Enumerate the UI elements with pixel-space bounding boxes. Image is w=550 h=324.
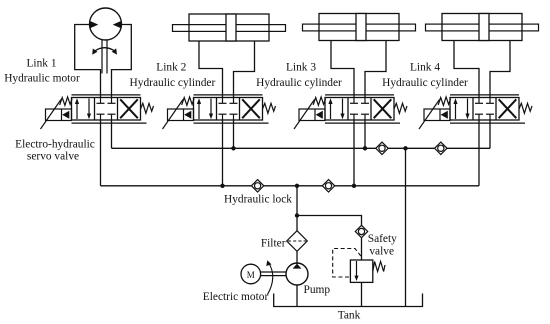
wire: V4 right port down to return bus end xyxy=(489,120,491,148)
servo valve V3 xyxy=(294,95,407,129)
wire: pump suction to tank xyxy=(296,285,298,307)
svg-text:valve: valve xyxy=(369,246,394,258)
wire: tank return line from return bus xyxy=(405,148,407,306)
wire: safety valve outlet to tank xyxy=(361,282,363,306)
wire: V3 left port down to pressure bus xyxy=(353,120,355,186)
servo valve V2 xyxy=(163,95,276,129)
svg-text:Electric motor: Electric motor xyxy=(203,291,269,303)
wire: cylinder C3 right port to valve V3 xyxy=(365,41,386,98)
motor-pump shaft xyxy=(261,272,286,276)
shaft rotation arrow xyxy=(266,260,273,294)
svg-text:Electro-hydraulic: Electro-hydraulic xyxy=(15,139,95,151)
svg-text:Hydraulic cylinder: Hydraulic cylinder xyxy=(130,77,216,89)
wire: cylinder C4 right port to valve V4 xyxy=(490,41,510,98)
wire: check valve to safety valve xyxy=(361,238,363,260)
node: V2-T junction xyxy=(231,146,235,150)
svg-text:Tank: Tank xyxy=(338,310,361,322)
wire: safety valve branch xyxy=(297,216,362,226)
servo valve V1 xyxy=(41,95,154,129)
hydraulic motor M1 (Link 1) xyxy=(90,8,122,40)
servo valve V4 xyxy=(419,95,532,129)
wire: V4 left port down to pressure bus end xyxy=(478,120,480,186)
node: return bus to tank junction xyxy=(403,146,407,150)
wire: cylinder C3 left port to valve V3 xyxy=(331,41,354,98)
check valve CV2 (hydraulic lock, pressure bus) xyxy=(322,180,334,192)
wire: cylinder C2 right port to valve V2 xyxy=(234,41,255,98)
wire: pressure bus (lower) xyxy=(101,185,480,187)
svg-text:Safety: Safety xyxy=(368,233,397,245)
check valve CV3 (hydraulic lock, return bus) xyxy=(376,142,388,154)
svg-text:Link 3: Link 3 xyxy=(286,62,316,74)
svg-text:Link 2: Link 2 xyxy=(156,62,186,74)
node: V3-P junction xyxy=(352,184,356,188)
svg-text:Pump: Pump xyxy=(304,284,331,296)
safety valve pilot line (dashed) xyxy=(333,249,361,278)
svg-text:Hydraulic motor: Hydraulic motor xyxy=(4,73,80,85)
node: pump-pressure bus junction xyxy=(295,184,299,188)
node: safety branch junction xyxy=(295,213,299,217)
wire: filter to pump xyxy=(296,251,298,264)
check valve CV1 (hydraulic lock, pressure bus) xyxy=(251,180,263,192)
wire: pump pressure riser xyxy=(296,186,298,231)
motor shaft xyxy=(102,40,107,74)
electric motor EM1 xyxy=(241,264,261,284)
wire: motor loop right xyxy=(112,25,132,98)
tank xyxy=(274,294,423,307)
wire: cylinder C2 left port to valve V2 xyxy=(199,41,223,98)
svg-text:Link 4: Link 4 xyxy=(410,62,440,74)
check valve CV4 (hydraulic lock, return bus) xyxy=(435,142,447,154)
wire: cylinder C4 left port to valve V4 xyxy=(454,41,479,98)
hydraulic cylinder C3 (Link 3) xyxy=(303,14,416,41)
safety valve spring xyxy=(373,262,385,272)
svg-text:Hydraulic lock: Hydraulic lock xyxy=(224,194,292,206)
wire: V1 right port down to return bus xyxy=(111,120,113,148)
svg-text:M: M xyxy=(247,270,255,280)
label: Electro-hydraulic servo valve xyxy=(15,139,95,163)
svg-text:Hydraulic cylinder: Hydraulic cylinder xyxy=(382,77,468,89)
label: Safety valve xyxy=(368,233,397,258)
hydraulic cylinder C2 (Link 2) xyxy=(173,14,286,41)
wire: V3 right port down to return bus xyxy=(364,120,366,148)
svg-text:servo valve: servo valve xyxy=(27,151,79,163)
wire: V2 right port down to return bus xyxy=(233,120,235,148)
hydraulic cylinder C4 (Link 4) xyxy=(426,14,539,41)
svg-text:Hydraulic cylinder: Hydraulic cylinder xyxy=(256,77,342,89)
svg-text:Link 1: Link 1 xyxy=(26,58,56,70)
check valve CV5 (above safety valve) xyxy=(355,225,367,237)
pump P1 xyxy=(286,263,308,285)
wire: motor loop left xyxy=(75,25,101,98)
wire: V2 left port down to pressure bus xyxy=(222,120,224,186)
svg-text:Filter: Filter xyxy=(261,238,286,250)
safety relief valve RV1 xyxy=(350,260,372,282)
wire: return bus (upper) xyxy=(112,147,491,149)
wire: V1 left port down to pressure bus xyxy=(100,120,102,186)
filter F1 xyxy=(287,231,308,252)
node: V2-P junction xyxy=(220,184,224,188)
node: V3-T junction xyxy=(363,146,367,150)
motor bidirectional rotation arrow xyxy=(92,48,117,55)
